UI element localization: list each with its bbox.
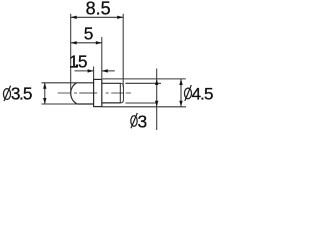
- 5 right arrow: [96, 41, 102, 44]
- phi4.5 top ext: [103, 78, 186, 80]
- head top edge: [77, 82, 94, 84]
- cylinder: [102, 82, 121, 84]
- dimension/extension lines: [42, 14, 187, 130]
- svg-text:3.5: 3.5: [11, 84, 33, 104]
- 1.5 right arrow (points left): [102, 69, 108, 72]
- dimension value text 1.5 (flange width): [69, 51, 88, 71]
- ext line A (x=93.6): [93, 67, 95, 80]
- phi4.5 V1 down arrow: [155, 101, 158, 107]
- centerline: [58, 92, 131, 94]
- phi4.5 V2 down arrow: [179, 101, 182, 107]
- phi4.5 V1 up arrow: [155, 79, 158, 85]
- phi3 bottom ext: [125, 102, 157, 104]
- dome arc: [71, 83, 77, 104]
- phi4.5 bottom ext: [102, 106, 186, 108]
- phi3.5 down arrow: [43, 98, 46, 104]
- cylinder end tangent line: [119, 83, 121, 103]
- flange: [94, 79, 102, 106]
- right ext line 8.5 (x=123.2): [122, 14, 124, 87]
- dim 1.5 right leader: [102, 70, 115, 72]
- phi4.5 V2 up arrow: [179, 79, 182, 85]
- diameter symbol phi for 4.5: [184, 85, 191, 101]
- svg-text:3: 3: [138, 111, 148, 131]
- dim 1.5 left leader: [75, 70, 94, 72]
- part outline: [71, 79, 124, 106]
- head bottom edge: [77, 103, 94, 105]
- dimension value text 5: [84, 23, 94, 43]
- 5 left arrow: [71, 41, 77, 44]
- left ext line (x=70.7): [70, 14, 72, 93]
- phi3.5 up arrow: [43, 83, 46, 89]
- svg-text:5: 5: [84, 23, 94, 43]
- arrows: [43, 16, 183, 107]
- dim line 5: [71, 42, 102, 44]
- phi3.5 bottom ext: [42, 103, 78, 105]
- dim line 8.5: [71, 16, 124, 18]
- phi3 top ext: [125, 82, 161, 84]
- 8.5 left arrow: [71, 16, 77, 19]
- svg-text:15: 15: [69, 51, 88, 71]
- diameter symbol phi for 3: [131, 113, 138, 128]
- phi4.5 dim line V1: [156, 69, 158, 131]
- 1.5 left arrow (points right): [88, 69, 94, 72]
- diameter symbol phi for 3.5: [3, 86, 10, 102]
- dimension value text 4.5 (flange diameter): [192, 84, 214, 103]
- dimension value text 3 (stud diameter): [138, 111, 148, 131]
- dimension value text 3.5 (head diameter): [11, 84, 33, 104]
- 8.5 right arrow: [117, 16, 123, 19]
- svg-text:8.5: 8.5: [86, 0, 111, 19]
- phi4.5 dim line V2: [180, 79, 182, 107]
- phi3.5 dim line: [44, 83, 46, 104]
- svg-text:4.5: 4.5: [192, 84, 214, 103]
- ext line B (x=101.8): [101, 37, 103, 79]
- phi3.5 top ext: [42, 82, 77, 84]
- dimension value text 8.5 (overall length): [86, 0, 111, 19]
